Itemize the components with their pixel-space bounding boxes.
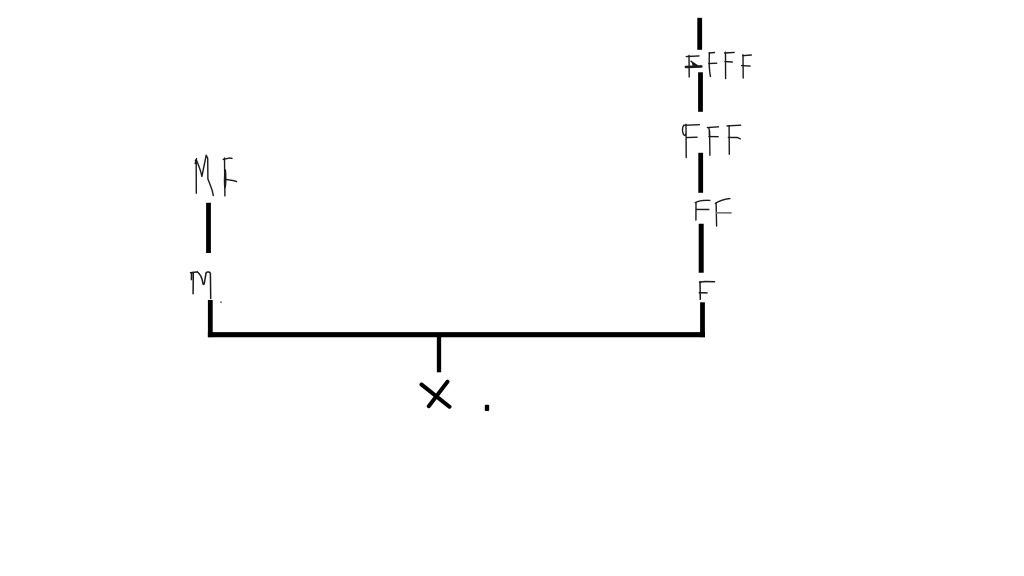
label M (mother node) — [191, 272, 211, 299]
label FF (grandfather node) — [695, 199, 731, 226]
label MF (maternal grandfather node) — [195, 155, 236, 196]
wire center stub to proband — [437, 336, 441, 372]
wire right vertical segment A (top) — [697, 18, 702, 50]
label FFF (great-grandfather node) — [683, 124, 741, 157]
wire right vertical segment B — [698, 72, 703, 112]
label F (father node) — [699, 282, 714, 300]
wire horizontal connector line — [208, 332, 705, 337]
dot right of X — [485, 405, 489, 411]
wire right vertical segment D — [699, 224, 704, 273]
wire left vertical segment 2 (to corner) — [208, 300, 213, 337]
wire right vertical segment C — [698, 153, 703, 193]
wire right vertical segment E (to corner) — [700, 302, 705, 337]
dot after M — [220, 302, 222, 303]
wire left vertical segment 1 — [206, 203, 211, 253]
X mark (proband) — [422, 382, 450, 407]
label FFFF (great-great-grandfather node) — [686, 52, 751, 78]
